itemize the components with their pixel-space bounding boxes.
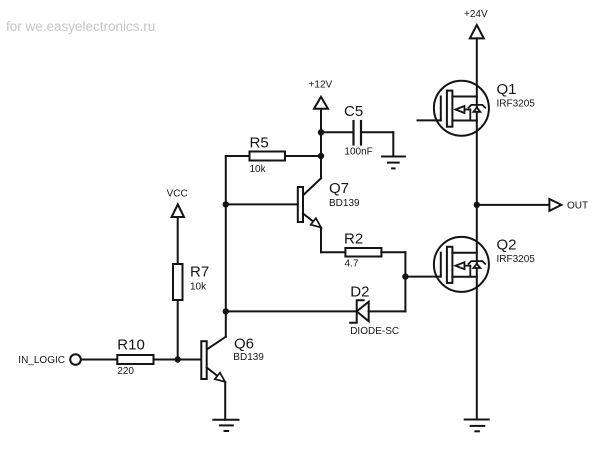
svg-text:R2: R2: [344, 230, 363, 247]
transistor Q7: [298, 187, 321, 228]
svg-text:Q6: Q6: [234, 336, 254, 353]
wire C5 to ground: [392, 132, 394, 156]
svg-text:R5: R5: [250, 135, 269, 152]
node OUT junction: [474, 202, 480, 208]
diode D2 (schottky): [350, 300, 369, 323]
svg-text:Q2: Q2: [497, 237, 517, 254]
node Q7 base junction: [223, 201, 229, 207]
svg-text:R10: R10: [117, 337, 145, 354]
wire OUT: [477, 204, 550, 206]
node C5 tap junction: [318, 129, 324, 135]
resistor R10: [117, 355, 153, 364]
svg-text:for we.easyelectronics.ru: for we.easyelectronics.ru: [6, 19, 155, 34]
wire Q7 collector: [303, 156, 321, 195]
transistor Q6: [201, 341, 225, 382]
wire Q7 emitter vertical: [320, 228, 322, 253]
wire +12V vertical: [320, 109, 322, 156]
ground (Q6): [213, 420, 238, 431]
wire R5 right: [285, 155, 321, 157]
svg-text:10k: 10k: [250, 164, 267, 175]
wire R5 left: [226, 155, 250, 157]
svg-text:4.7: 4.7: [345, 259, 359, 270]
power arrow +12V: [314, 97, 328, 109]
svg-text:DIODE-SC: DIODE-SC: [350, 326, 399, 337]
terminal IN_LOGIC: [70, 354, 81, 365]
svg-text:10k: 10k: [190, 282, 207, 293]
wire C5 right: [361, 131, 393, 133]
svg-text:C5: C5: [344, 103, 363, 120]
svg-text:VCC: VCC: [167, 189, 188, 200]
power arrow +24V: [470, 25, 484, 39]
capacitor C5: [354, 121, 362, 145]
svg-text:+12V: +12V: [309, 80, 333, 91]
wire R2 right vertical: [404, 252, 406, 311]
wire R2 right: [381, 251, 405, 253]
resistor R2: [345, 248, 381, 257]
wire main +24V/OUT/GND rail: [476, 38, 478, 419]
wire D2 left: [226, 310, 357, 312]
node D2/Q6 collector junction: [223, 308, 229, 314]
wire Q7 base: [226, 203, 298, 205]
power arrow VCC: [172, 204, 184, 217]
wire R7 bottom: [177, 300, 179, 360]
MOSFET Q1: [434, 81, 489, 136]
resistor R5: [250, 152, 286, 161]
svg-text:+24V: +24V: [464, 9, 488, 20]
node Q2 gate junction: [402, 273, 408, 279]
svg-text:OUT: OUT: [567, 201, 588, 212]
svg-text:IRF3205: IRF3205: [497, 254, 536, 265]
svg-text:IRF3205: IRF3205: [497, 98, 536, 109]
wire Q6 collector: [207, 311, 226, 349]
svg-text:Q1: Q1: [497, 81, 517, 98]
wire Q2 gate: [405, 276, 440, 278]
svg-text:BD139: BD139: [233, 352, 264, 363]
wire R2 left: [321, 251, 345, 253]
terminal OUT arrow: [549, 199, 561, 211]
wire R10 to Q6 base: [154, 359, 202, 361]
wire VCC to R7: [177, 217, 179, 264]
wire Q1 gate lead: [418, 119, 441, 121]
ground (below Q2): [465, 420, 489, 432]
svg-text:220: 220: [117, 366, 134, 377]
node R7/R10 junction: [175, 356, 181, 362]
wire left vertical bus: [225, 156, 227, 311]
wire D2 right: [369, 310, 406, 312]
svg-text:Q7: Q7: [329, 180, 349, 197]
svg-text:BD139: BD139: [329, 198, 360, 209]
svg-text:100nF: 100nF: [344, 146, 372, 157]
wire Q6 emitter to ground: [224, 382, 226, 420]
MOSFET Q2: [434, 237, 489, 292]
wire C5 left: [321, 131, 354, 133]
svg-text:IN_LOGIC: IN_LOGIC: [18, 355, 65, 366]
node R5/Q7 collector junction: [318, 153, 324, 159]
resistor R7: [173, 264, 183, 300]
ground (C5): [382, 157, 405, 169]
svg-text:R7: R7: [190, 264, 209, 281]
wire IN_LOGIC to R10: [81, 359, 117, 361]
svg-text:D2: D2: [350, 284, 369, 301]
